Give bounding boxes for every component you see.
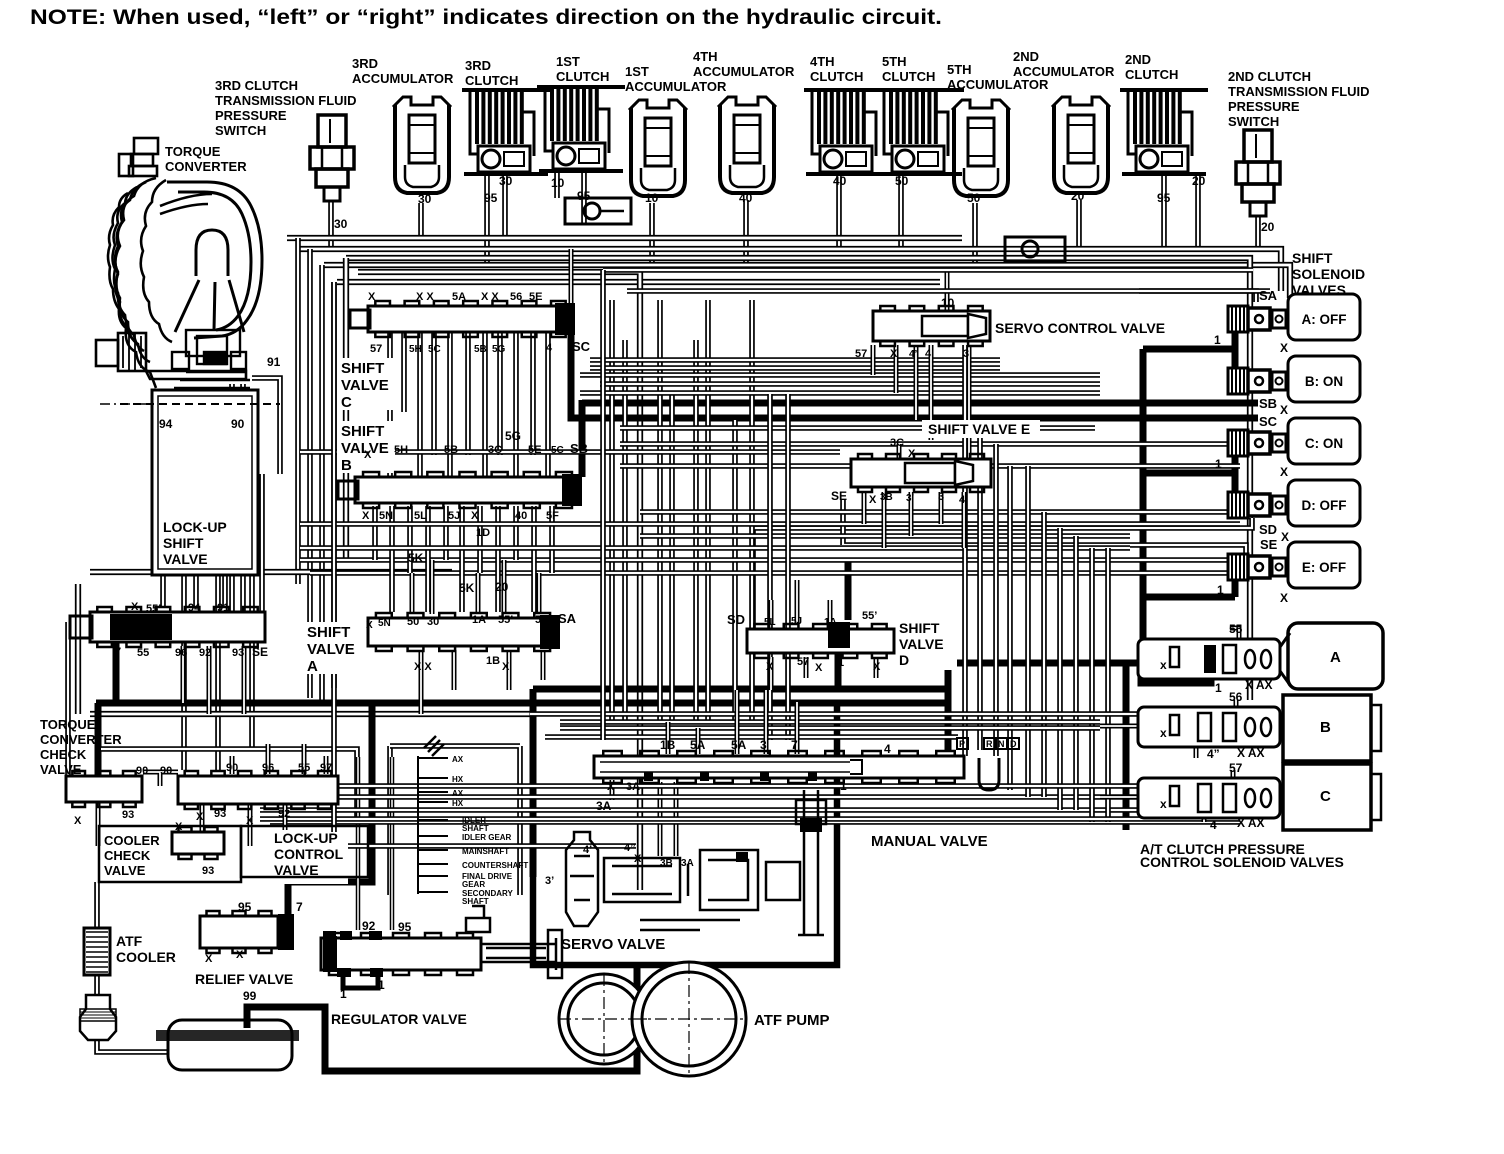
ATF strainer <box>80 995 116 1040</box>
shift valve A stub 7 <box>541 650 546 680</box>
svg-text:90: 90 <box>136 765 148 777</box>
svg-text:X: X <box>607 781 615 793</box>
wire C-B vertical 4 <box>431 332 437 455</box>
wire lockup down1 <box>160 575 166 608</box>
wire mid-right vertical 6 <box>1041 512 1047 797</box>
svg-text:X AX: X AX <box>1237 816 1265 830</box>
svg-text:IDLER GEAR: IDLER GEAR <box>462 833 512 842</box>
svg-text:1D: 1D <box>476 527 490 539</box>
servo control valve stub 2 <box>894 345 899 393</box>
pc sol B 56 stub <box>1234 700 1239 716</box>
svg-text:20: 20 <box>1071 189 1085 203</box>
pressure control solenoid C body <box>1138 761 1280 818</box>
svg-text:X: X <box>890 348 898 360</box>
svg-text:AX: AX <box>452 755 464 764</box>
PRND indicator <box>957 738 1019 749</box>
svg-text:57: 57 <box>797 656 809 668</box>
svg-text:5B: 5B <box>474 344 487 355</box>
svg-text:x: x <box>1160 658 1167 672</box>
svg-text:90: 90 <box>160 765 172 777</box>
inner box shift valve C/B <box>358 272 640 890</box>
shift valve A spool left <box>90 607 265 647</box>
tc check valve stub down <box>96 802 101 846</box>
servo valve internals <box>566 790 826 935</box>
svg-text:SERVO VALVE: SERVO VALVE <box>561 936 665 953</box>
svg-text:95: 95 <box>484 191 498 205</box>
manual valve stub 1 <box>666 722 671 754</box>
wire B-A vertical 1 <box>372 506 378 560</box>
svg-text:94: 94 <box>188 602 201 614</box>
servo control valve 10 stub <box>945 270 950 313</box>
wire mid vertical extra 2 <box>785 394 791 740</box>
svg-text:20: 20 <box>1261 220 1275 234</box>
lock-up control stub 5 <box>200 804 205 846</box>
label bg <box>866 830 994 850</box>
shift valve A spool right <box>368 613 560 651</box>
wire top to valve C right end <box>569 249 574 303</box>
wire accum4 down <box>743 200 749 265</box>
svg-text:30: 30 <box>427 616 439 628</box>
wire switch-3rd down <box>328 201 334 248</box>
lock-up control stub 7 <box>283 804 288 830</box>
svg-text:10: 10 <box>551 176 565 190</box>
bus y466 <box>620 463 1240 469</box>
bus bottom 2 <box>260 807 1240 813</box>
svg-text:RELIEF VALVE: RELIEF VALVE <box>195 971 293 987</box>
svg-text:5G: 5G <box>505 429 521 443</box>
svg-text:5G: 5G <box>492 344 506 355</box>
svg-text:97: 97 <box>320 762 332 774</box>
svg-text:X AX: X AX <box>1245 678 1273 692</box>
svg-text:10: 10 <box>645 191 659 205</box>
wire B-A vertical 11 <box>549 506 555 573</box>
wire lockup down2 <box>193 575 199 608</box>
svg-text:X X: X X <box>481 291 499 303</box>
svg-text:4: 4 <box>959 494 966 506</box>
bus y714 <box>530 711 1240 717</box>
5th accumulator <box>952 100 1010 196</box>
svg-text:7: 7 <box>296 900 303 914</box>
manual valve stub 2 <box>696 728 701 754</box>
svg-text:5H: 5H <box>409 344 422 355</box>
svg-text:X: X <box>766 661 774 673</box>
svg-text:SHAFT: SHAFT <box>462 824 489 833</box>
wire B-A vertical 4 <box>425 506 431 612</box>
servo shaft stub lines <box>418 756 448 894</box>
svg-text:3’: 3’ <box>545 875 554 887</box>
wire B-A vertical 7 <box>477 506 483 573</box>
shift valve A top stub 4 <box>502 560 507 614</box>
svg-text:X: X <box>634 853 642 865</box>
servo gear shaft labels <box>452 755 528 906</box>
bus y444 <box>620 441 1240 447</box>
bus y728 pair lower <box>560 725 1100 731</box>
box A <box>1280 623 1383 689</box>
bus bottom 1 <box>250 794 1240 800</box>
svg-text:B: ON: B: ON <box>1305 374 1343 389</box>
wire 92 up <box>356 757 361 930</box>
svg-text:5A: 5A <box>690 738 706 752</box>
manual valve stub 3 <box>735 690 740 754</box>
bus y536 <box>640 533 1130 539</box>
servo control valve stub 4 <box>929 345 934 440</box>
thick feed E <box>1143 579 1235 597</box>
lock-up control stub 3 <box>302 744 307 774</box>
lock-up control valve spool <box>178 771 338 809</box>
wire clutch3 30 down <box>502 176 508 238</box>
thick feed C-D <box>1143 455 1235 494</box>
wire B-A vertical 5 <box>443 506 449 560</box>
wire B-A vertical 10 <box>531 506 537 612</box>
wire clutch3 down <box>484 176 490 265</box>
svg-text:N: N <box>998 739 1005 749</box>
svg-text:40: 40 <box>515 510 527 522</box>
shift valve A top stub 2 <box>430 560 435 614</box>
svg-text:GEAR: GEAR <box>462 880 485 889</box>
bus y512 <box>640 509 1240 515</box>
wire mid-right vertical 5 <box>1025 466 1031 797</box>
wire C-B vertical 3 <box>417 332 423 477</box>
svg-text:1: 1 <box>1217 583 1224 597</box>
shift valve A top stub 5 <box>537 573 542 614</box>
svg-text:55: 55 <box>1229 622 1243 636</box>
pc sol A 55 stub <box>1230 628 1239 647</box>
torque converter check valve spool <box>66 771 142 807</box>
svg-text:57: 57 <box>855 348 867 360</box>
svg-text:x: x <box>1160 726 1167 740</box>
thick line main pressure T3 <box>96 640 948 776</box>
shift valve C spool <box>368 301 575 337</box>
servo control valve detail <box>922 314 986 338</box>
wire accum3 down <box>418 203 424 238</box>
wire clutch2 20 down <box>1195 176 1201 249</box>
box around shift valves top right <box>346 258 1250 700</box>
svg-text:92: 92 <box>362 919 376 933</box>
bus mid 4 <box>310 570 1240 576</box>
bus y368 <box>590 365 1000 371</box>
wire C-B vertical 7 <box>482 332 488 477</box>
svg-text:A: A <box>1330 649 1341 666</box>
svg-text:x: x <box>1160 797 1167 811</box>
wire tc stub <box>193 392 199 408</box>
shift valve A stub 4 <box>419 650 424 714</box>
ATF pan <box>156 1020 299 1070</box>
svg-text:SA: SA <box>558 611 577 626</box>
servo control valve stub 3 <box>914 345 919 420</box>
svg-text:55’: 55’ <box>146 603 161 615</box>
svg-text:3C: 3C <box>488 444 502 456</box>
svg-text:X: X <box>873 661 881 673</box>
wire mid-right vertical 2 <box>977 420 983 750</box>
wire mid vertical 5 <box>693 340 699 722</box>
wire mid-right vertical 4 <box>1007 466 1013 790</box>
svg-text:93: 93 <box>214 808 226 820</box>
manual valve detent <box>979 758 999 790</box>
wire B-A vertical 3 <box>407 506 413 573</box>
pc sol C 4 stub <box>1202 800 1207 822</box>
bus mid 2 <box>580 390 1100 396</box>
svg-text:3C: 3C <box>890 437 904 449</box>
svg-text:1A: 1A <box>824 617 837 628</box>
svg-text:X: X <box>368 291 376 303</box>
2nd clutch <box>1120 88 1208 176</box>
shift valve E detail <box>905 461 973 485</box>
svg-text:D: D <box>1010 739 1017 749</box>
svg-text:1B: 1B <box>660 738 676 752</box>
svg-text:C: C <box>1320 788 1331 805</box>
thick into valve D 1A <box>845 560 852 620</box>
bus top servo box <box>603 267 1253 273</box>
svg-text:NOTE: When used, “left” or “ri: NOTE: When used, “left” or “right” indic… <box>30 5 942 29</box>
thick line SC <box>571 330 1258 418</box>
wire mid vertical 4 <box>669 395 675 722</box>
torque converter <box>108 178 212 388</box>
shift valve A stub 5 <box>452 650 457 690</box>
label bg <box>990 318 1170 337</box>
label bg <box>337 358 395 410</box>
wire SA feed <box>1139 291 1256 302</box>
pressure control solenoid A body <box>1138 622 1280 679</box>
svg-text:4: 4 <box>1210 818 1217 832</box>
svg-text:4: 4 <box>925 348 932 360</box>
svg-text:50: 50 <box>407 616 419 628</box>
svg-text:40: 40 <box>833 174 847 188</box>
thick feed A-B <box>1143 331 1235 370</box>
shift valve E top stub 3C <box>897 444 902 459</box>
svg-text:P: P <box>959 739 965 749</box>
lock-up control stub 1 <box>230 756 235 774</box>
svg-text:50: 50 <box>967 191 981 205</box>
bus line top4 <box>337 279 940 285</box>
wire C-B vertical 11 <box>545 332 551 477</box>
bus y360 <box>590 357 1000 363</box>
svg-text:X X: X X <box>414 661 432 673</box>
svg-text:3: 3 <box>760 738 767 752</box>
svg-text:D: OFF: D: OFF <box>1302 498 1347 513</box>
box valve CB left-bottom <box>334 282 636 846</box>
2nd accumulator <box>1052 97 1110 193</box>
svg-text:X: X <box>1280 465 1288 479</box>
shift valve E stub 2 <box>882 492 887 548</box>
svg-text:SB: SB <box>570 441 588 456</box>
thick pickup line <box>247 965 637 1071</box>
1st clutch <box>537 85 625 173</box>
shift valve E stub 1 <box>862 492 867 524</box>
manual valve stub 5 <box>795 702 800 754</box>
wire 91 to A <box>259 474 265 612</box>
shift solenoid valve A <box>1228 294 1360 340</box>
svg-text:3A: 3A <box>596 799 612 813</box>
svg-text:5B: 5B <box>444 444 458 456</box>
shift valve D stub 6 <box>874 657 879 678</box>
svg-text:5C: 5C <box>551 445 564 456</box>
svg-text:3A: 3A <box>626 781 640 793</box>
wire lockup down3 <box>222 575 228 608</box>
svg-text:1B: 1B <box>486 655 500 667</box>
svg-text:1A: 1A <box>472 614 486 626</box>
svg-text:5L: 5L <box>414 510 427 522</box>
wire mid vertical extra 1 <box>767 394 773 740</box>
relief valve spool <box>200 911 278 953</box>
wire tc down 2 <box>229 384 235 612</box>
hatch mark <box>424 736 444 756</box>
wire C-B vertical 9 <box>513 332 519 477</box>
wire mid-right vertical 9 <box>1089 548 1095 822</box>
svg-text:X: X <box>366 620 373 631</box>
svg-text:REGULATOR VALVE: REGULATOR VALVE <box>331 1011 467 1027</box>
svg-text:3B: 3B <box>880 492 893 503</box>
box around lock-up control valve label <box>241 826 368 877</box>
wire left fan 4 <box>331 282 337 688</box>
svg-text:1: 1 <box>838 657 844 669</box>
servo control valve stub 5 <box>967 345 972 466</box>
svg-text:SE: SE <box>252 645 268 659</box>
svg-text:X: X <box>196 811 204 823</box>
wire mid-right vertical 1 <box>962 345 968 756</box>
wire C-B vertical 5 <box>447 332 453 477</box>
svg-text:X: X <box>1280 591 1288 605</box>
svg-text:E: OFF: E: OFF <box>1302 560 1346 575</box>
svg-text:7: 7 <box>791 738 798 752</box>
svg-text:96: 96 <box>262 762 274 774</box>
wire lockup long down2 <box>215 575 221 770</box>
svg-text:95: 95 <box>398 920 412 934</box>
wire clutch1 95 <box>581 173 587 225</box>
bus y524 <box>300 521 1240 527</box>
manual valve spool <box>594 751 964 783</box>
shift valve B end cap <box>338 481 358 499</box>
box left side <box>343 258 349 560</box>
shift valve D stub 2 <box>795 580 800 625</box>
svg-text:X: X <box>1280 403 1288 417</box>
wire clutch4 down <box>836 176 842 249</box>
svg-text:55’: 55’ <box>862 610 877 622</box>
label bg <box>895 618 957 670</box>
svg-text:SD: SD <box>1259 522 1277 537</box>
wire clutch5 down <box>898 176 904 249</box>
relief valve black end <box>278 914 294 950</box>
svg-text:X: X <box>908 448 916 460</box>
svg-text:96: 96 <box>175 647 187 659</box>
wire SE from valve E <box>843 500 1246 554</box>
lock-up shift valve <box>120 390 280 575</box>
bus y452 <box>300 449 840 455</box>
svg-text:3B: 3B <box>660 858 673 869</box>
wire left edge to tc check valve <box>65 622 71 776</box>
wire C-B vertical 6 <box>465 332 471 455</box>
svg-text:30: 30 <box>499 174 513 188</box>
svg-text:93: 93 <box>122 809 134 821</box>
svg-text:5F: 5F <box>546 510 559 522</box>
svg-text:95: 95 <box>577 189 591 203</box>
pc sol B left stub <box>1100 724 1138 729</box>
box C <box>1283 764 1381 830</box>
bus y737 <box>545 734 958 740</box>
shift valve B spool <box>355 472 582 508</box>
wire lockup down4 <box>249 575 255 749</box>
bus y384 <box>600 381 1100 387</box>
svg-text:5J: 5J <box>448 510 460 522</box>
wire mid-right vertical 10 <box>1105 548 1111 822</box>
svg-text:MAINSHAFT: MAINSHAFT <box>462 847 509 856</box>
thick sol A line <box>1141 647 1211 683</box>
svg-text:93: 93 <box>232 647 244 659</box>
wire mid-right vertical 7 <box>1057 528 1063 810</box>
shift valve D stub 1 <box>769 600 774 625</box>
shift valve E stub 5 <box>962 492 967 548</box>
bus mid 1 <box>580 372 1100 378</box>
shift valve E stub 4 <box>939 492 944 524</box>
wire 91 down <box>252 378 280 474</box>
svg-text:1: 1 <box>1215 681 1222 695</box>
servo control valve spool <box>873 306 990 346</box>
svg-text:30: 30 <box>418 192 432 206</box>
shift solenoid valve C <box>1228 418 1360 464</box>
svg-text:5H: 5H <box>394 444 408 456</box>
svg-text:X: X <box>471 510 479 522</box>
servo valve box border <box>533 689 837 965</box>
label bg <box>270 832 348 884</box>
svg-text:94: 94 <box>159 417 173 431</box>
svg-text:4’: 4’ <box>583 844 592 856</box>
svg-text:X: X <box>131 601 139 613</box>
shift solenoid valve E <box>1228 542 1360 588</box>
shift solenoid valve D <box>1228 480 1360 526</box>
bus line top1 <box>287 235 962 241</box>
lock-up control stub 2 <box>266 744 271 774</box>
svg-text:R: R <box>986 739 993 749</box>
svg-text:SA: SA <box>1259 288 1278 303</box>
svg-text:7: 7 <box>115 646 121 658</box>
svg-text:55: 55 <box>137 647 149 659</box>
svg-text:1: 1 <box>340 987 347 1001</box>
vertical left of servo control area <box>600 270 606 740</box>
svg-text:93: 93 <box>202 865 214 877</box>
svg-text:20: 20 <box>1192 174 1206 188</box>
svg-text:91: 91 <box>267 355 281 369</box>
svg-text:SC: SC <box>572 339 591 354</box>
svg-text:5L: 5L <box>764 617 776 628</box>
svg-text:A: OFF: A: OFF <box>1302 312 1347 327</box>
bus line top2 <box>300 249 1281 291</box>
lock-up valve internal pipe 1 <box>184 396 189 569</box>
shift valve E spool <box>851 454 991 492</box>
svg-text:COUNTERSHAFT: COUNTERSHAFT <box>462 861 528 870</box>
svg-text:X: X <box>815 662 823 674</box>
bus y786 <box>250 783 1240 789</box>
svg-text:56: 56 <box>1229 690 1243 704</box>
svg-text:92: 92 <box>199 647 211 659</box>
5th clutch <box>876 88 964 176</box>
wire lockup long down1 <box>181 575 187 770</box>
3rd accumulator <box>393 97 451 193</box>
shift valve D stub 3 <box>828 600 833 625</box>
shift valve E stub 3 <box>909 492 914 536</box>
svg-text:95: 95 <box>238 900 252 914</box>
wire C-B vertical 1 <box>387 332 393 477</box>
svg-text:57: 57 <box>370 343 382 355</box>
svg-text:4: 4 <box>884 742 891 756</box>
svg-text:5F: 5F <box>535 614 548 626</box>
svg-text:5J: 5J <box>791 616 802 627</box>
wire SD from valve D <box>753 518 1252 629</box>
manual valve stub 4 <box>764 690 769 754</box>
svg-text:X X: X X <box>416 291 434 303</box>
bus bottom 3 <box>270 819 1240 825</box>
svg-text:5K: 5K <box>408 551 424 565</box>
label bg <box>337 421 395 473</box>
ATF pump <box>559 962 746 1076</box>
